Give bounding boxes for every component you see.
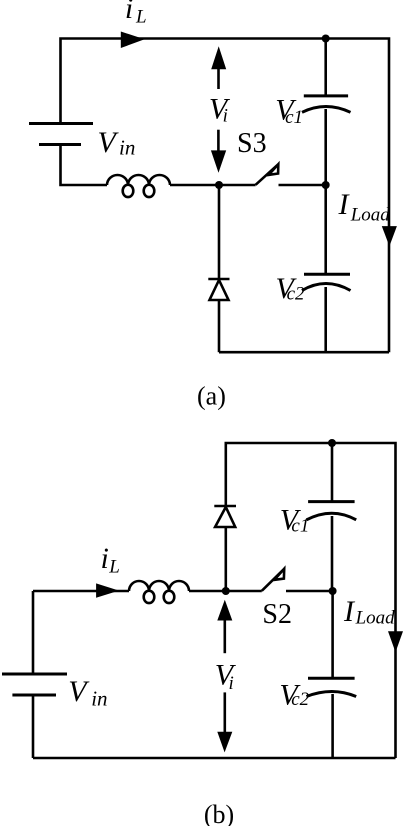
diode D (b) [214, 505, 236, 508]
wire main left (b) [33, 590, 129, 593]
svg-text:S2: S2 [262, 599, 292, 630]
svg-text:(a): (a) [197, 381, 226, 410]
node junction (a) mid-left [215, 181, 223, 189]
wire battery bottom lead (b) [32, 695, 35, 758]
wire diode top lead (a) [218, 185, 221, 279]
inductor L (b) [129, 581, 189, 591]
svg-text:V: V [68, 675, 90, 708]
switch S3 blade [256, 164, 279, 185]
svg-text:V: V [98, 126, 120, 159]
switch S2 blade [262, 569, 284, 591]
wire node to C2 (b) [331, 591, 334, 678]
svg-text:c1: c1 [285, 107, 303, 128]
wire switch to node (b) [286, 590, 333, 593]
wire bottom (a) [219, 351, 389, 354]
node junction (b) mid-left [222, 587, 230, 595]
arrow Vi down (b) [224, 692, 227, 732]
capacitor C2 (a) [302, 274, 351, 290]
wire battery bottom lead (a) [61, 145, 108, 186]
svg-text:S3: S3 [237, 128, 267, 159]
capacitor C1 (a) [302, 96, 351, 112]
svg-text:i: i [229, 673, 234, 694]
svg-text:Load: Load [350, 205, 391, 226]
wire C2 bottom lead (b) [331, 694, 334, 758]
wire battery top lead (b) [32, 591, 35, 674]
wire diode bottom lead (b) [225, 527, 228, 591]
wire C1 top lead (b) [331, 443, 334, 502]
wire top (b) [226, 443, 396, 758]
svg-text:L: L [108, 557, 120, 578]
svg-text:(b): (b) [204, 800, 234, 826]
wire C2 bottom lead (a) [324, 287, 327, 352]
svg-text:c1: c1 [291, 516, 309, 537]
arrow Vi up (a) [217, 68, 220, 89]
svg-text:c2: c2 [287, 283, 305, 304]
node junction (b) top [328, 439, 336, 447]
arrow Vi up (b) [224, 619, 227, 653]
wire node to C2 (a) [324, 185, 327, 274]
wire C1 bottom lead (b) [331, 516, 334, 591]
arrow iL (b) [96, 583, 119, 597]
battery Vin (b) [2, 674, 67, 695]
diode D (a) [208, 278, 229, 281]
node junction (a) mid-right [322, 181, 330, 189]
wire inductor to switch (a) [170, 184, 256, 187]
svg-text:i: i [223, 106, 228, 127]
capacitor C2 (b) [307, 678, 357, 696]
battery Vin (a) [29, 124, 93, 145]
wire C1 top lead (a) [324, 39, 327, 96]
svg-text:I: I [338, 188, 351, 221]
wire C1 bottom lead (a) [324, 109, 327, 185]
arrow iL (a) [121, 32, 145, 49]
node junction (a) top [322, 35, 330, 43]
svg-text:c2: c2 [291, 689, 309, 710]
svg-text:Load: Load [355, 608, 396, 629]
svg-text:L: L [135, 7, 147, 28]
arrow ILoad (a) [382, 226, 397, 246]
node junction (b) mid-right [329, 587, 337, 595]
svg-text:in: in [91, 687, 107, 711]
inductor L (a) [107, 175, 170, 185]
wire diode bottom lead (a) [218, 300, 221, 352]
wire bottom (b) [33, 757, 396, 760]
arrow Vi down (a) [217, 130, 220, 151]
wire switch to node (a) [279, 184, 326, 187]
capacitor C1 (b) [307, 502, 357, 520]
svg-text:i: i [101, 542, 109, 575]
wire inductor to switch (b) [189, 590, 262, 593]
arrow ILoad (b) [388, 631, 403, 652]
svg-text:in: in [119, 136, 135, 160]
wire top-left lead (a) [61, 39, 390, 353]
svg-text:I: I [343, 595, 356, 628]
svg-text:i: i [125, 0, 133, 25]
